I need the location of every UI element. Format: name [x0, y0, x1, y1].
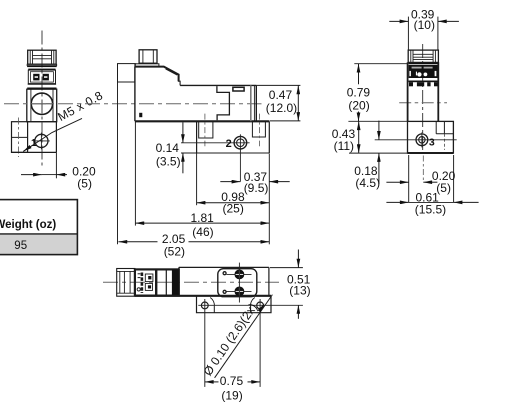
solenoid block (bottom view) [135, 269, 179, 295]
port 2 circle [234, 136, 247, 149]
bottom port B [227, 290, 252, 292]
side port boss (left view) [12, 122, 28, 153]
solenoid cap outline (center view) [135, 67, 179, 82]
mounting plate [197, 296, 272, 313]
dimension 0.18 (4.5) [378, 121, 380, 140]
port 1 circle [35, 134, 48, 147]
bottom ports vertical centerline [238, 263, 240, 303]
svg-text:(9.5): (9.5) [244, 181, 269, 195]
connector (bottom view) [117, 269, 135, 297]
mounting hole leader line [215, 295, 273, 378]
svg-text:(11): (11) [334, 139, 354, 153]
base plate rounded outline (bottom view) [218, 269, 257, 297]
svg-text:(52): (52) [164, 245, 185, 259]
svg-text:(15.5): (15.5) [415, 202, 446, 216]
solenoid flange band (left view) [27, 64, 57, 65]
terminal base line [28, 83, 56, 85]
dimension 0.20 (5) right view extension lines [408, 155, 410, 202]
M5 x 0.8 leader line [23, 118, 82, 151]
connector housing (right view) [408, 50, 438, 62]
mounting hole left vertical extension [204, 299, 206, 387]
comb teeth [409, 82, 413, 86]
terminal block (left view) [28, 70, 55, 84]
body right edge [255, 85, 257, 121]
top tab rectangle [233, 87, 244, 91]
svg-text:0.14: 0.14 [156, 141, 180, 155]
dimension 0.20 (5) right view [386, 181, 408, 183]
weight table border [0, 200, 77, 255]
terminal screw A [33, 74, 39, 81]
electrical connector (center view, side) [118, 64, 135, 82]
mounting hole left lobe arc [210, 298, 214, 313]
body (bottom view) [179, 266, 269, 268]
dimension 0.75 (19) [205, 381, 219, 383]
body top edge [180, 84, 256, 86]
svg-text:0.75: 0.75 [220, 374, 244, 388]
mounting hole left [201, 302, 208, 309]
svg-text:(5): (5) [77, 177, 92, 191]
top plug (center view) [139, 50, 157, 63]
extension line right edge [268, 154, 270, 245]
dimension 0.20 (5) left view extension line [55, 152, 57, 178]
body left face [134, 67, 136, 122]
dimension 0.61 (15.5) [386, 201, 408, 203]
valve lower body (left view) [27, 121, 57, 123]
base plate (right view) [408, 121, 454, 153]
extension line connector left [117, 82, 119, 244]
small vent mark [139, 113, 142, 117]
dimension 0.39 (10) extension lines [407, 17, 409, 51]
mounting hole right lobe arc [251, 298, 255, 313]
extension line base left [196, 154, 198, 206]
svg-text:(19): (19) [221, 388, 242, 402]
dimension 0.47 (12.0) extension lines [256, 84, 300, 86]
svg-text:(4.5): (4.5) [355, 176, 380, 190]
svg-text:(13): (13) [289, 284, 310, 298]
dimension 0.79 (20) extension lines [354, 63, 408, 65]
dimension 0.47 (12.0) [297, 85, 299, 121]
svg-text:(20): (20) [348, 99, 369, 113]
base left slot [199, 121, 213, 138]
dimension 0.79 (20) [358, 64, 360, 84]
base right slot [252, 121, 265, 137]
dimension 0.98 (25) [197, 202, 270, 204]
svg-text:(3.5): (3.5) [156, 155, 181, 169]
svg-text:Weight (oz): Weight (oz) [0, 219, 56, 231]
dimension 0.51 (13) [297, 250, 299, 268]
solenoid lower band (right view) [409, 81, 438, 83]
dimension 1.81 (46) [135, 222, 269, 224]
svg-text:(25): (25) [223, 201, 244, 215]
svg-text:(12.0): (12.0) [266, 101, 297, 115]
valve upper body (left view) [27, 89, 57, 122]
connector housing (left view) [28, 50, 56, 64]
dimension 0.43/0.18 lower extension line [349, 152, 408, 154]
inner vertical seam lines near right end [250, 85, 252, 121]
solenoid top band (right view) [409, 63, 438, 64]
base notch top right [435, 121, 437, 133]
svg-text:95: 95 [14, 240, 27, 252]
svg-text:3: 3 [429, 137, 435, 149]
dimension 0.39 (10) [389, 20, 408, 22]
internal step outline [217, 86, 230, 120]
left view vertical centerline [41, 31, 43, 167]
extension line body left face [134, 122, 136, 226]
solenoid bottom band (left view) [27, 88, 56, 90]
solenoid label block (right view) [409, 65, 438, 78]
terminal screw B [43, 74, 49, 81]
dimension 0.51 (13) extension line [270, 267, 303, 269]
svg-text:(10): (10) [414, 18, 435, 32]
dimension 0.43 (11) [358, 121, 360, 153]
dimension 0.14 (3.5) [182, 122, 184, 143]
right view vertical centerline [422, 44, 424, 150]
mounting hole right [257, 302, 264, 309]
small pin hole A [223, 272, 226, 275]
small pin hole B [223, 290, 226, 293]
mounting holes horizontal centerline / 0.51 lower extension [198, 304, 303, 306]
weight table gray cell [0, 234, 77, 255]
svg-text:1.81: 1.81 [191, 211, 215, 225]
dimension 2.05 (52) [118, 241, 157, 243]
mounting hole right vertical extension [259, 299, 261, 387]
weight table divider [0, 233, 77, 235]
port 3 circle [416, 134, 428, 146]
solenoid gasket band (left view) [28, 69, 55, 71]
bottom port A [227, 273, 252, 275]
manual override circle [31, 93, 52, 114]
base plate (center view) [196, 121, 198, 153]
svg-text:2: 2 [226, 138, 232, 150]
dimension 0.20 (5) left view [21, 174, 42, 176]
solenoid label details [141, 273, 144, 294]
bottom view horizontal centerline [103, 281, 279, 283]
center view horizontal centerline [4, 103, 262, 105]
svg-text:(46): (46) [192, 225, 213, 239]
svg-text:0.79: 0.79 [347, 86, 371, 100]
plug flange [135, 64, 159, 67]
right view horizontal centerline [399, 102, 447, 104]
dimension 0.37 (9.5) [220, 181, 240, 183]
solenoid body sides (right view) [407, 62, 409, 121]
body bottom / base top thick edge [135, 120, 269, 122]
